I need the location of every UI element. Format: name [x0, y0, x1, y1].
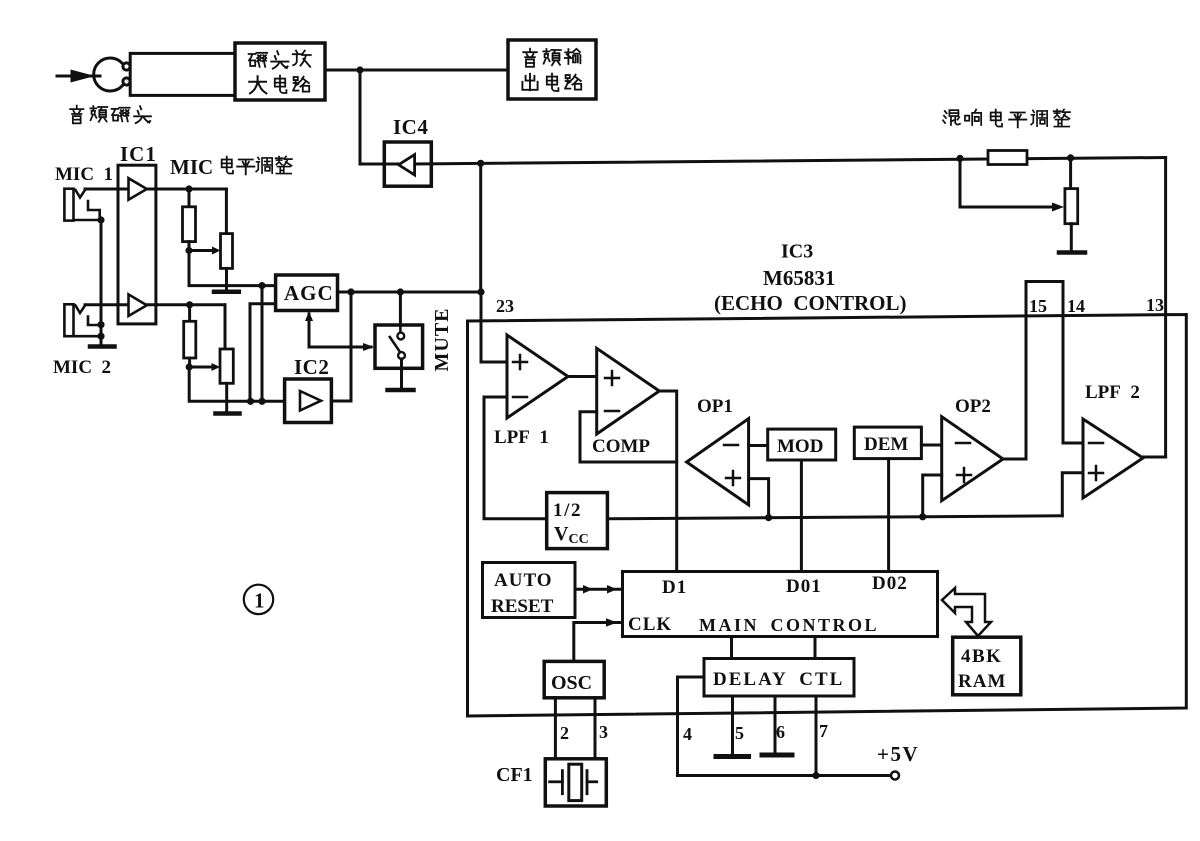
jack MIC1 [64, 189, 101, 221]
arrowhead reset 1 [583, 585, 593, 594]
node OP1 plus bias [765, 514, 772, 521]
wire OP1 minus to MOD [749, 444, 768, 447]
node MIC2 sleeve [97, 321, 104, 328]
svg-text:15: 15 [1029, 296, 1047, 316]
svg-text:MIC 1: MIC 1 [55, 164, 113, 185]
box MOD [768, 429, 836, 460]
svg-text:1 / 2: 1 / 2 [553, 500, 580, 521]
svg-text:LPF 2: LPF 2 [1085, 382, 1140, 403]
svg-text:5: 5 [735, 723, 744, 743]
svg-text:MOD: MOD [777, 436, 823, 457]
svg-text:COMP: COMP [592, 436, 650, 457]
svg-text:RAM: RAM [958, 671, 1006, 692]
wire MIC2 signal [85, 303, 225, 306]
switch MUTE [375, 325, 423, 389]
arrowhead reset 2 [607, 585, 617, 594]
node OP2 plus bias [919, 513, 926, 520]
node [397, 288, 404, 295]
wire branch down to IC2 line [261, 286, 264, 402]
op-amp IC4 [384, 115, 431, 186]
node: junction on head amp output [356, 66, 363, 73]
potentiometer reverb [1069, 158, 1072, 189]
wire COMP output / node D1 [659, 391, 676, 572]
svg-text:DEM: DEM [864, 434, 908, 455]
svg-text:MIC: MIC [170, 155, 213, 179]
wiper arrow [189, 366, 213, 369]
wire LPF2 out to pin 13 riser [1143, 456, 1166, 459]
svg-text:DELAY CTL: DELAY CTL [713, 669, 844, 690]
svg-text:3: 3 [599, 722, 608, 742]
wire LPF1 out [568, 375, 597, 378]
svg-text:D1: D1 [662, 577, 687, 598]
wire OP2 plus to bias [923, 475, 942, 517]
node [185, 247, 192, 254]
svg-text:13: 13 [1146, 295, 1164, 315]
node [186, 363, 193, 370]
ground under MIC2 jack [90, 344, 115, 349]
svg-text:MIC 2: MIC 2 [53, 357, 111, 378]
wire pin4 loop [678, 677, 892, 776]
arrowhead into CLK [606, 618, 617, 627]
svg-text:23: 23 [496, 296, 514, 316]
wire mic ground bus [100, 220, 103, 345]
resistor R (mic2) [188, 305, 191, 322]
wire second AGC input [250, 304, 276, 402]
wire pin7 to +5V [815, 696, 818, 776]
wire junction down to IC4 [360, 70, 398, 164]
svg-text:IC1: IC1 [120, 142, 157, 166]
svg-text:MAIN CONTROL: MAIN CONTROL [699, 615, 879, 635]
ground [1059, 250, 1085, 255]
wire mic2 net to IC2 [189, 367, 284, 401]
wire LPF2 plus to bias [1062, 473, 1083, 516]
box 1/2 Vcc [547, 493, 608, 549]
label 混响电平调整 [943, 109, 1070, 127]
box OSC [544, 661, 604, 697]
svg-text:AGC: AGC [284, 281, 334, 305]
node [185, 185, 192, 192]
node MIC2 jack bottom [97, 333, 104, 340]
wire MIC1 signal [85, 188, 226, 191]
label 音频磁头 [70, 106, 151, 124]
box 4BK RAM [953, 637, 1021, 695]
wire IC2 feedback riser [350, 292, 353, 401]
wire IC4 output long run to top right [414, 158, 1166, 165]
node [186, 301, 193, 308]
wire mic1 net to AGC [189, 251, 276, 286]
wire D01 [800, 460, 803, 572]
jack MIC2 [64, 304, 101, 336]
arrowhead wiper [212, 247, 221, 255]
box MAIN CONTROL [623, 572, 938, 637]
svg-text:OP2: OP2 [955, 396, 991, 417]
resistor reverb level [988, 151, 1027, 165]
node: junction after resistor [1067, 154, 1074, 161]
wire COMP feedback loop [580, 412, 677, 462]
op-amp IC1 (dual) [118, 165, 156, 324]
box: audio output circuit 音频输出电路 [508, 40, 596, 99]
op-amp OP1 [687, 419, 749, 505]
arrowhead wiper [212, 363, 221, 371]
svg-text:6: 6 [776, 722, 785, 742]
svg-text:(ECHO CONTROL): (ECHO CONTROL) [714, 291, 907, 315]
node [247, 398, 254, 405]
ground under MUTE [388, 388, 414, 393]
box: head amp circuit 磁头放大电路 [235, 43, 325, 100]
svg-text:+5V: +5V [877, 742, 919, 766]
node pin7 +5V rail [812, 772, 819, 779]
wire AGC control feed [309, 314, 371, 347]
box DELAY CTL [704, 659, 854, 697]
svg-text:2: 2 [560, 723, 569, 743]
box DEM [854, 427, 921, 459]
wire AGC output to pin23 line [338, 291, 482, 294]
svg-text:4: 4 [683, 724, 692, 744]
svg-text:IC3: IC3 [781, 241, 813, 263]
ground [214, 290, 239, 295]
potentiometer mic2 [224, 305, 227, 349]
svg-text:LPF 1: LPF 1 [494, 427, 549, 448]
audio head core (C shape with coil bumps) [94, 58, 130, 91]
wire pin5 [731, 696, 734, 756]
arrowhead into AGC [305, 312, 313, 322]
svg-text:IC2: IC2 [294, 355, 329, 379]
box AUTO RESET [483, 563, 576, 618]
svg-text:RESET: RESET [491, 596, 554, 617]
node [97, 216, 104, 223]
svg-text:7: 7 [819, 721, 828, 741]
arrowhead into MUTE [363, 343, 374, 351]
svg-text:MUTE: MUTE [431, 308, 453, 372]
wire AUTO RESET to MAIN CONTROL [575, 588, 623, 591]
svg-text:D02: D02 [872, 573, 908, 594]
wire pin6 [774, 696, 777, 754]
wire OSC pin3 [594, 698, 597, 759]
svg-text:AUTO: AUTO [494, 570, 553, 591]
svg-text:OSC: OSC [551, 672, 592, 694]
wire echo send down to pin 23 [479, 163, 482, 292]
resistor R (mic1) [188, 189, 191, 207]
wire LPF1 feedback to bias [484, 397, 546, 519]
op-amp LPF2 [1083, 419, 1143, 498]
box AGC [276, 275, 338, 311]
op-amp COMP [597, 348, 660, 434]
wire OP2 out up through pin15 and back pin14 [1003, 282, 1083, 460]
tape direction arrow [57, 72, 100, 81]
wire down to pin 13 and LPF2 output [1164, 158, 1167, 458]
svg-text:D01: D01 [786, 576, 822, 597]
svg-text:14: 14 [1067, 296, 1085, 316]
wire CLK from OSC [574, 623, 623, 662]
wiper arrow [189, 249, 214, 252]
op-amp IC2 [285, 355, 332, 423]
svg-text:4BK: 4BK [961, 646, 1002, 667]
node [258, 398, 265, 405]
op-amp LPF1 [507, 335, 568, 418]
svg-text:M65831: M65831 [763, 266, 835, 290]
op-amp OP2 [942, 417, 1003, 501]
svg-text:CF1: CF1 [496, 764, 533, 786]
ground pin6 [762, 753, 792, 758]
svg-text:OP1: OP1 [697, 396, 733, 417]
wire OSC pin2 [554, 698, 557, 759]
svg-text:CLK: CLK [628, 614, 672, 635]
node: junction before reverb resistor [956, 155, 963, 162]
crystal CF1 [496, 759, 606, 806]
node [258, 282, 265, 289]
figure number ① [244, 585, 273, 614]
node: echo send junction [477, 160, 484, 167]
svg-text:1: 1 [254, 589, 265, 613]
wire head amp to audio out [325, 69, 508, 72]
ground [216, 411, 240, 416]
ground pin5 [716, 754, 749, 759]
label MIC电平调整 [170, 155, 292, 179]
memory bus arrow (hollow) [942, 588, 991, 636]
wire IC2 output [331, 400, 351, 403]
head body rectangle [130, 53, 238, 95]
wire to pot wiper [960, 158, 1052, 207]
wire MUTE drop [399, 292, 402, 325]
wires MAIN CONTROL to DELAY CTL [730, 637, 733, 659]
wire into LPF1 plus [481, 292, 507, 362]
node [347, 288, 354, 295]
arrowhead pot wiper [1052, 203, 1064, 212]
node [477, 288, 484, 295]
wire D02 [887, 459, 890, 572]
potentiometer mic1 [225, 189, 228, 234]
wire OP1 plus to bias [749, 479, 769, 518]
wire DEM to OP2 [921, 444, 941, 447]
+5V terminal [891, 772, 899, 780]
svg-text:IC4: IC4 [393, 115, 428, 139]
